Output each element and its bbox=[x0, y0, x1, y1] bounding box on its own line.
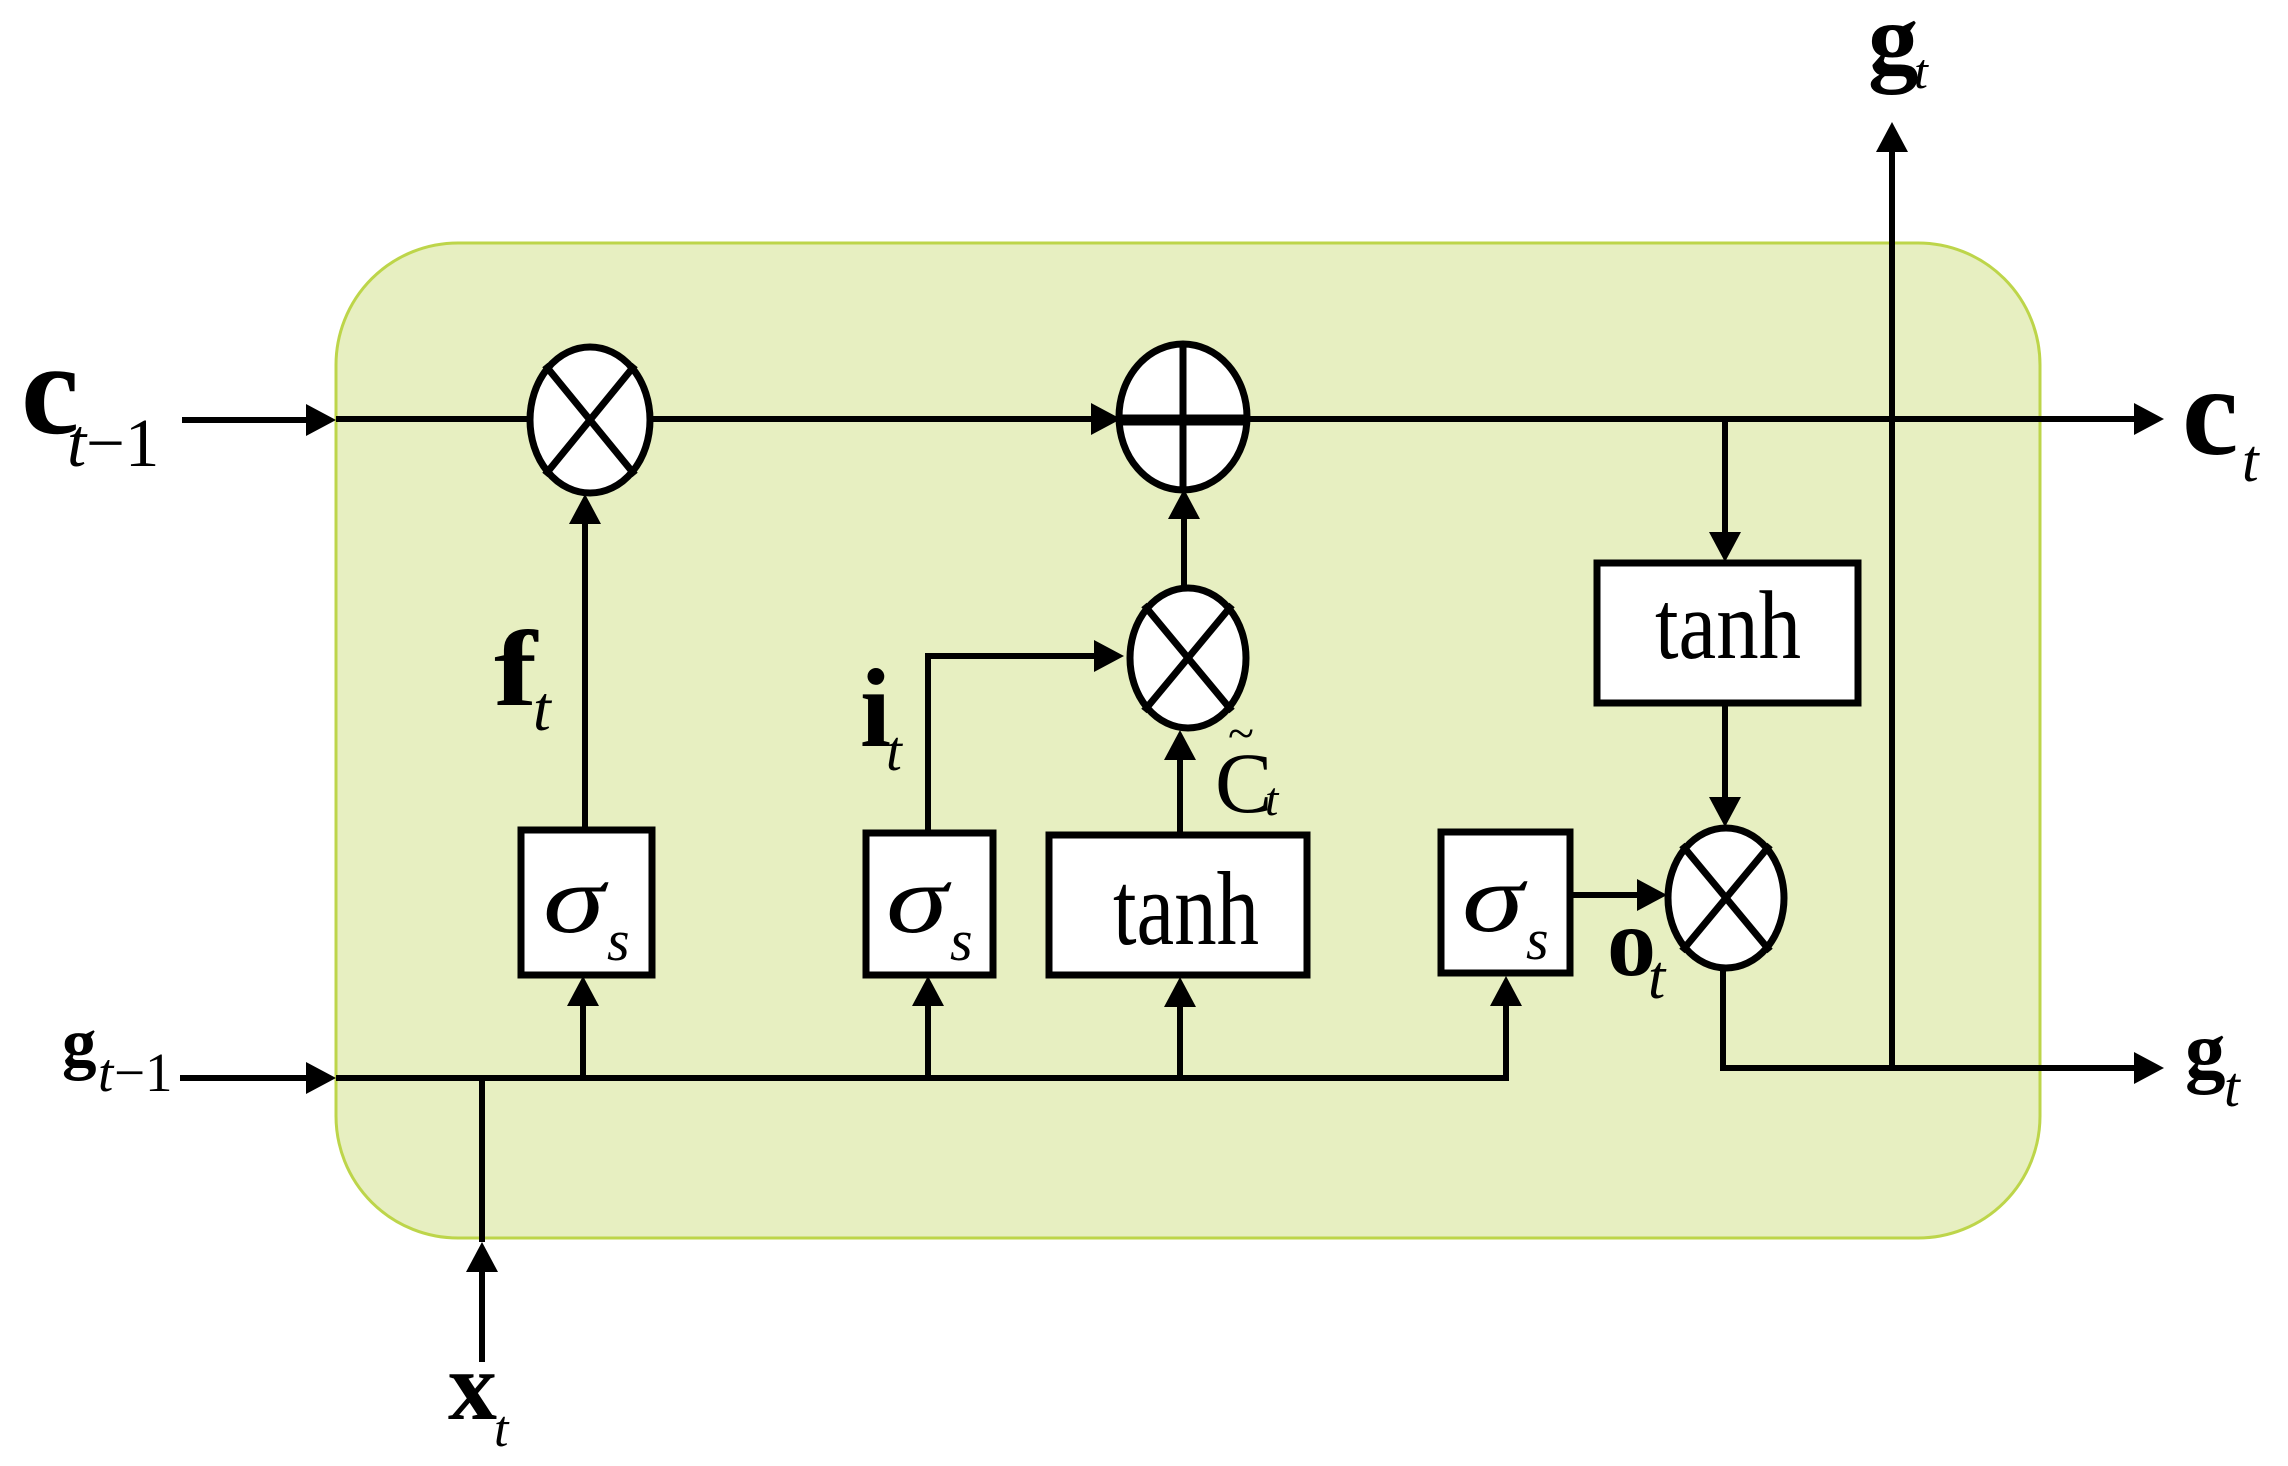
arrowhead into sigma3 bottom bbox=[1490, 976, 1522, 1006]
svg-text:g: g bbox=[62, 1005, 97, 1081]
wire c_{t-1} input segment bbox=[182, 404, 336, 436]
node output multiply (circle with X) bbox=[1668, 828, 1784, 968]
svg-text:−1: −1 bbox=[114, 1042, 173, 1103]
label f_t bbox=[494, 609, 553, 744]
svg-text:t: t bbox=[98, 1042, 115, 1103]
svg-text:f: f bbox=[494, 609, 539, 729]
wire branch up to sigma2 bbox=[912, 976, 944, 1078]
svg-text:s: s bbox=[607, 908, 630, 973]
svg-text:tanh: tanh bbox=[1655, 572, 1801, 679]
label g_t right output bbox=[2185, 1005, 2241, 1119]
svg-text:t: t bbox=[1914, 43, 1929, 99]
label i_t bbox=[860, 647, 903, 783]
wire g_{t-1} input segment bbox=[180, 1062, 336, 1094]
arrowhead g_t right output bbox=[2134, 1052, 2164, 1084]
label Ctilde_t bbox=[1215, 707, 1280, 831]
svg-text:t: t bbox=[67, 405, 88, 481]
svg-text:σ: σ bbox=[886, 847, 952, 953]
gate box sigma3 (output gate) bbox=[1441, 832, 1570, 973]
svg-text:s: s bbox=[1526, 907, 1549, 972]
svg-text:s: s bbox=[950, 908, 973, 973]
svg-text:t: t bbox=[886, 720, 903, 783]
svg-text:x: x bbox=[448, 1333, 497, 1441]
svg-text:t: t bbox=[533, 673, 553, 744]
svg-text:g: g bbox=[1868, 0, 1919, 95]
label c_{t-1} bbox=[21, 317, 159, 481]
gate box sigma2 (input gate) bbox=[866, 833, 993, 975]
node plus (circle with +) bbox=[1119, 344, 1247, 490]
wire right tanh down into output multiply node bbox=[1709, 703, 1741, 827]
label c_t output bbox=[2182, 342, 2260, 494]
wire f_t vertical into forget multiply node bbox=[569, 494, 601, 830]
wire x_t input from bottom bbox=[466, 1078, 498, 1362]
node middle multiply (circle with X) bbox=[1130, 588, 1246, 728]
label o_t bbox=[1607, 889, 1667, 1012]
gate box sigma1 (forget gate) bbox=[521, 830, 652, 975]
wire i_t from sigma2 up and right into middle multiply node bbox=[928, 656, 1098, 831]
LSTM cell body (rounded green rect) bbox=[336, 243, 2040, 1238]
wire output multiply node down then right to g_t output bbox=[1723, 966, 2140, 1068]
gate box right tanh (cell output squash) bbox=[1597, 563, 1858, 703]
svg-text:t: t bbox=[494, 1401, 510, 1458]
wire branch up to middle tanh bbox=[1164, 977, 1196, 1078]
wire g main horizontal inside cell, ends turning up into sigma3 bbox=[336, 1000, 1506, 1078]
node forget multiply (circle with X) bbox=[530, 347, 650, 493]
svg-text:t: t bbox=[1265, 773, 1280, 826]
svg-text:t: t bbox=[2242, 428, 2260, 494]
label g_t top output bbox=[1868, 0, 1929, 99]
arrowhead into middle multiply node bbox=[1094, 640, 1124, 672]
wire middle multiply node up into plus node bbox=[1168, 489, 1200, 588]
label x_t bbox=[448, 1333, 510, 1458]
svg-text:t: t bbox=[2224, 1056, 2241, 1119]
wire c after plus node to output c_t bbox=[1245, 403, 2164, 435]
wire c main horizontal (inside cell, to plus node) bbox=[336, 403, 1121, 435]
svg-text:g: g bbox=[2185, 1005, 2226, 1095]
svg-text:t: t bbox=[1648, 944, 1667, 1012]
wire o_t from sigma3 right into output multiply node bbox=[1570, 879, 1667, 911]
svg-text:tanh: tanh bbox=[1113, 850, 1259, 967]
wire branch up to sigma1 bbox=[567, 976, 599, 1078]
svg-text:c: c bbox=[2182, 342, 2238, 482]
gate box middle tanh (candidate) bbox=[1049, 835, 1307, 975]
wire Ctilde from middle tanh up into middle multiply node bbox=[1164, 730, 1196, 837]
svg-text:−1: −1 bbox=[86, 405, 159, 481]
label g_{t-1} bbox=[62, 1005, 173, 1103]
wire branch from c line down into right tanh bbox=[1709, 421, 1741, 562]
svg-text:σ: σ bbox=[543, 847, 609, 953]
svg-text:σ: σ bbox=[1462, 846, 1528, 952]
wire g_t vertical going up out of cell bbox=[1876, 122, 1908, 1068]
svg-text:C: C bbox=[1215, 735, 1272, 831]
